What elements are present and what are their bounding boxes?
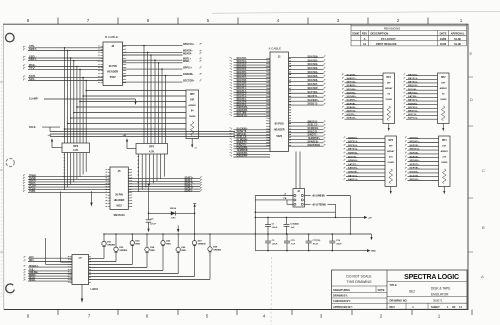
svg-text:DATE: DATE (378, 288, 385, 292)
svg-text:RP6: RP6 (73, 145, 78, 148)
title text (390, 283, 451, 297)
svg-text:SHEET: SHEET (431, 305, 440, 309)
svg-text:SDAT5-: SDAT5- (185, 189, 193, 192)
scan fold artifact (270, 257, 273, 325)
svg-text:RP2: RP2 (441, 77, 446, 79)
svg-text:5: 5 (207, 18, 210, 23)
RP4 input ticks (406, 137, 407, 180)
svg-text:DO NOT SCALE: DO NOT SCALE (346, 275, 372, 279)
svg-text:ARRAY: ARRAY (188, 104, 196, 107)
svg-text:A: A (364, 37, 366, 41)
svg-text:CLAMP-: CLAMP- (29, 98, 38, 101)
hole punch top (6, 33, 15, 42)
node CLAMP (29, 98, 136, 101)
svg-text:SCLK-: SCLK- (29, 126, 37, 129)
svg-text:SDAT4-: SDAT4- (185, 184, 193, 187)
J5 left pins (108, 170, 110, 207)
resistor network RP6 (62, 143, 90, 153)
U7 right pins (89, 257, 91, 283)
connector J1 (270, 52, 289, 152)
svg-text:.22uF: .22uF (272, 244, 278, 246)
B cable output labels (123, 43, 195, 83)
svg-text:SMSGI1-: SMSGI1- (308, 121, 319, 123)
svg-text:SDAT4+: SDAT4+ (185, 182, 194, 185)
power rail mid end (370, 234, 372, 240)
power +5V at CR1 (193, 203, 196, 234)
resistor pack RP3 (385, 136, 397, 187)
svg-text:J1: J1 (278, 54, 281, 58)
LED D52 (89, 233, 128, 261)
svg-text:SRSET1-: SRSET1- (308, 104, 319, 106)
resistor network RP7 (136, 144, 168, 155)
svg-text:050071: 050071 (433, 298, 443, 302)
resistor pack RP2 (438, 73, 450, 124)
svg-text:GREEN: GREEN (213, 250, 221, 252)
svg-text:DRAWING NO.: DRAWING NO. (390, 298, 408, 302)
svg-text:1: 1 (438, 314, 441, 319)
svg-text:B CABLE: B CABLE (105, 35, 118, 39)
sheet row (390, 303, 463, 309)
capacitor C19 (286, 217, 288, 224)
power feed to LED bus (177, 226, 179, 234)
B cable input labels (29, 45, 37, 81)
A cable output labels group 1 (289, 55, 324, 105)
svg-text:REVISIONS: REVISIONS (384, 26, 400, 30)
svg-text:CHECKED BY:: CHECKED BY: (333, 299, 351, 303)
svg-text:PC LAYOUT: PC LAYOUT (381, 37, 396, 41)
svg-text:80 POS: 80 POS (275, 122, 284, 126)
capacitor C2 (267, 234, 269, 241)
svg-text:SINOT1-: SINOT1- (308, 135, 318, 137)
svg-text:6: 6 (146, 314, 149, 319)
title block (332, 270, 468, 309)
LED D57 (89, 233, 206, 276)
svg-text:8: 8 (27, 18, 30, 23)
svg-text:SDATB6-: SDATB6- (308, 79, 319, 82)
wire bundle J3 to J5 (143, 45, 166, 144)
connector J5 (110, 167, 128, 210)
svg-text:MDATA-: MDATA- (183, 52, 192, 55)
svg-text:RP0: RP0 (190, 94, 195, 96)
svg-text:HEADER: HEADER (114, 199, 125, 202)
svg-text:3: 3 (337, 18, 340, 23)
svg-text:SLJB: SLJB (454, 42, 461, 46)
svg-text:SDATB4-: SDATB4- (308, 71, 319, 74)
capacitor C1 (267, 217, 269, 224)
svg-text:CR1: CR1 (171, 217, 176, 219)
svg-text:.56uF: .56uF (336, 244, 342, 246)
svg-text:SBSYCK+: SBSYCK+ (183, 43, 195, 46)
svg-text:SRPLY+: SRPLY+ (183, 66, 193, 69)
svg-text:6: 6 (147, 18, 150, 23)
svg-text:REV: REV (390, 305, 396, 309)
svg-text:1: 1 (460, 18, 463, 23)
svg-text:1N914: 1N914 (170, 207, 177, 210)
svg-text:REV: REV (362, 31, 368, 35)
svg-text:C77(76): C77(76) (312, 240, 320, 242)
diode CR1 (149, 207, 195, 219)
RP3 common pin (390, 187, 392, 195)
revision table (351, 24, 467, 46)
svg-text:4: 4 (263, 314, 266, 319)
ground at U7 (81, 285, 84, 303)
U7 input labels (28, 256, 72, 282)
svg-text:4.7K: 4.7K (149, 150, 154, 153)
svg-text:OHMS: OHMS (440, 99, 447, 101)
svg-text:RP1: RP1 (387, 77, 392, 79)
svg-text:.22uF: .22uF (272, 227, 278, 229)
svg-text:SATTN1-: SATTN1- (308, 91, 319, 94)
B cable input pin ticks (24, 46, 26, 80)
wires B cable inputs (28, 47, 103, 143)
svg-text:SDATB0-: SDATB0- (308, 55, 319, 58)
svg-text:SDATB5-: SDATB5- (308, 75, 319, 78)
RP3 input labels (346, 137, 385, 181)
J2 left labels (284, 193, 287, 200)
svg-text:FIRST RELEASE: FIRST RELEASE (376, 42, 397, 46)
connector J3 (103, 42, 123, 86)
ground at C3 (147, 229, 149, 233)
border zone numbers top (27, 18, 463, 23)
drawing number (390, 298, 443, 302)
svg-text:26 PIN: 26 PIN (109, 64, 117, 68)
svg-text:ZONE: ZONE (352, 31, 359, 35)
RP2 input labels (406, 74, 438, 119)
svg-text:SDAT5+: SDAT5+ (185, 187, 194, 190)
svg-text:26 PIN: 26 PIN (115, 193, 123, 196)
node SCLK (29, 126, 60, 129)
A cable output ticks group 1 (324, 56, 326, 105)
svg-text:RED: RED (181, 250, 186, 252)
svg-text:APPROVAL: APPROVAL (451, 32, 465, 35)
A cable pin number ticks (230, 58, 232, 157)
svg-text:+5V: +5V (123, 135, 127, 137)
svg-text:SPECTRA LOGIC: SPECTRA LOGIC (404, 274, 459, 281)
J1 left pins (268, 58, 270, 145)
capacitor C74 (331, 234, 333, 241)
svg-text:RED: RED (150, 250, 155, 252)
svg-text:SECTOR+: SECTOR+ (183, 79, 195, 82)
RP1 input labels (345, 74, 384, 119)
svg-text:TITLE: TITLE (390, 283, 397, 287)
svg-text:DIP: DIP (190, 100, 194, 102)
svg-text:+5V (VTERM): +5V (VTERM) (312, 204, 326, 206)
RP7 pin numbers (138, 157, 140, 187)
wire feed U7 b (61, 192, 73, 263)
svg-text:4.7uF: 4.7uF (150, 223, 156, 226)
wire bus below J3 (64, 90, 186, 130)
svg-text:SDATBP-: SDATBP- (308, 87, 319, 90)
J5 input pin ticks (24, 175, 26, 192)
LED D51 (89, 233, 116, 258)
border zone ticks top (58, 18, 428, 25)
U7 left pins (70, 257, 72, 283)
RP0 supply pin (191, 139, 198, 150)
J5 output labels (128, 176, 200, 192)
capacitor C79 (286, 234, 288, 241)
svg-text:2: 2 (380, 314, 383, 319)
svg-text:A1: A1 (363, 42, 367, 46)
svg-text:ARRAY: ARRAY (387, 150, 395, 153)
svg-text:SDAT3+: SDAT3+ (185, 176, 194, 179)
wire LED supply bus (104, 233, 372, 235)
J3 right pins (123, 46, 125, 83)
svg-text:THIS DRAWING: THIS DRAWING (347, 280, 372, 284)
RP1 common pin (388, 124, 390, 132)
svg-text:EMULATOR: EMULATOR (431, 293, 449, 297)
svg-text:SDAT3-: SDAT3- (185, 179, 193, 182)
svg-text:SLJB: SLJB (454, 37, 461, 41)
svg-text:ARRAY: ARRAY (441, 150, 449, 153)
svg-text:5022: 5022 (110, 75, 116, 79)
signature rows (333, 288, 385, 309)
svg-text:OHMS: OHMS (441, 162, 448, 164)
svg-text:SACKN1-: SACKN1- (308, 99, 319, 102)
svg-text:5: 5 (206, 314, 209, 319)
svg-text:GREEN: GREEN (119, 250, 127, 252)
svg-text:RP7: RP7 (149, 146, 154, 149)
scan paper edge top (212, 12, 500, 14)
capacitor C3 (146, 183, 157, 228)
svg-text:3: 3 (320, 314, 323, 319)
svg-text:SCMDD1-: SCMDD1- (308, 128, 320, 130)
svg-text:SE2: SE2 (409, 289, 415, 293)
node VTERM (305, 204, 337, 218)
svg-text:B: B (482, 225, 485, 230)
svg-text:.1uF: .1uF (291, 244, 296, 246)
svg-text:SIGNATURES: SIGNATURES (333, 288, 350, 292)
svg-text:SDATB1-: SDATB1- (308, 59, 319, 62)
J5 input labels (28, 175, 110, 193)
svg-text:APPROVED BY:: APPROVED BY: (333, 305, 353, 309)
svg-text:C: C (482, 168, 485, 173)
svg-text:GREEN: GREEN (198, 244, 206, 246)
svg-text:RP4: RP4 (442, 139, 447, 142)
svg-text:DESCRIPTION: DESCRIPTION (371, 31, 389, 35)
hole punch bottom (6, 284, 15, 293)
svg-text:TERMPW+: TERMPW+ (308, 138, 321, 140)
svg-text:+5V (VMEM): +5V (VMEM) (312, 196, 325, 198)
RP2 common pin (442, 124, 444, 132)
svg-text:2: 2 (397, 18, 400, 23)
ground rail (255, 249, 376, 253)
svg-text:A: A (412, 305, 414, 309)
wires RP6 to J5 bus (65, 153, 87, 191)
wire J2 to rail (255, 196, 336, 251)
svg-text:DIP: DIP (442, 146, 446, 148)
svg-text:8: 8 (27, 314, 30, 319)
svg-text:J3: J3 (111, 44, 114, 48)
svg-text:GND: GND (371, 251, 376, 253)
svg-text:DISK & TAPE: DISK & TAPE (431, 286, 450, 290)
svg-text:SBUSY1-: SBUSY1- (308, 96, 319, 98)
svg-text:OHMS: OHMS (388, 162, 395, 164)
svg-text:HEADER: HEADER (274, 128, 285, 132)
node VMEM (305, 196, 352, 235)
border zone ticks left (0, 82, 3, 252)
svg-text:DABOM+: DABOM+ (183, 73, 194, 76)
power +5V at RP6 (48, 135, 63, 148)
svg-text:SM17243: SM17243 (113, 213, 125, 217)
ground at J5 (90, 191, 92, 206)
jumper block J2 (293, 189, 305, 208)
svg-text:RP3: RP3 (389, 140, 394, 142)
svg-text:DRAWN BY:: DRAWN BY: (333, 294, 348, 298)
svg-text:E: E (470, 51, 473, 56)
svg-text:+5V: +5V (368, 217, 372, 219)
wires J1 to J2 (296, 152, 300, 189)
power rail VMEM (255, 216, 372, 220)
svg-text:5020: 5020 (276, 134, 282, 138)
wires RP7 down (139, 154, 165, 192)
svg-text:DATE: DATE (440, 31, 447, 35)
svg-text:11/86: 11/86 (440, 42, 447, 46)
J3 left pins (101, 46, 103, 83)
border zone ticks right (468, 77, 473, 252)
wire bus to A cable (50, 127, 235, 136)
svg-text:A CABLE: A CABLE (269, 46, 282, 50)
border zone numbers bottom (27, 314, 441, 319)
svg-text:L3344: L3344 (91, 287, 99, 291)
svg-text:.01uF: .01uF (312, 244, 318, 246)
svg-text:7: 7 (88, 314, 91, 319)
resistor pack RP1 (383, 73, 395, 124)
A cable output ticks group 2 (324, 121, 326, 146)
svg-text:DIP: DIP (441, 83, 445, 85)
LED D64 (89, 233, 156, 267)
svg-text:SPAREB-: SPAREB- (308, 140, 319, 143)
svg-text:SDATB7-: SDATB7- (308, 83, 319, 86)
RP2 input ticks (404, 74, 405, 119)
svg-text:4: 4 (277, 18, 280, 23)
svg-text:SSELC1-: SSELC1- (308, 125, 319, 127)
A cable output labels group 2 (289, 121, 324, 146)
resistor pack RP0 (186, 90, 199, 139)
svg-text:D: D (470, 97, 473, 102)
LED D58 (89, 233, 222, 279)
svg-text:RED: RED (136, 244, 141, 246)
J1 right pins (289, 58, 291, 145)
svg-text:4.7K: 4.7K (73, 149, 78, 152)
A cable pin labels (234, 57, 271, 157)
svg-text:ARRAY: ARRAY (440, 87, 448, 90)
B cable output pin ticks (200, 43, 202, 81)
svg-text:DIP: DIP (389, 146, 393, 148)
svg-text:SDATB2-: SDATB2- (308, 63, 319, 66)
svg-text:HEADER: HEADER (107, 70, 118, 74)
svg-text:OHMS: OHMS (189, 116, 196, 118)
svg-text:A: A (481, 274, 484, 279)
svg-text:C19(AB): C19(AB) (290, 222, 299, 225)
svg-text:.1uF: .1uF (290, 227, 295, 229)
resistor pack RP4 (439, 136, 451, 187)
LED D53 (89, 233, 141, 264)
scan paper edge left (0, 26, 2, 300)
RP3 input ticks (344, 137, 345, 180)
RP1 input ticks (343, 74, 344, 119)
svg-text:SREQT1-: SREQT1- (308, 131, 319, 133)
J5 right pins (128, 170, 130, 207)
border zone ticks bottom (58, 310, 472, 316)
logo SPECTRA LOGIC (404, 274, 459, 281)
svg-text:GREEN: GREEN (107, 244, 115, 246)
border zone letters right (470, 51, 486, 279)
svg-text:7: 7 (87, 18, 90, 23)
svg-text:5022: 5022 (116, 204, 122, 207)
note do not scale (346, 275, 372, 285)
svg-text:RED: RED (166, 244, 171, 246)
svg-text:SDATB3-: SDATB3- (308, 67, 319, 70)
LED D55 (89, 233, 172, 270)
svg-text:ARRAY: ARRAY (385, 87, 393, 90)
svg-text:+5V: +5V (48, 135, 52, 137)
svg-text:GNDSPRB: GNDSPRB (308, 145, 321, 147)
U7 input pin ticks (24, 257, 26, 281)
svg-text:MSEL-: MSEL- (183, 60, 191, 63)
RP4 input labels (408, 136, 439, 181)
svg-text:DIP: DIP (387, 83, 391, 85)
hole punch middle (6, 158, 14, 166)
power +5V at RP7 (123, 135, 137, 149)
LED D66 (89, 233, 187, 273)
IC U7 (72, 255, 89, 285)
svg-text:10/86: 10/86 (440, 37, 447, 41)
RP4 common pin (443, 187, 445, 195)
ground stub near J3 bus (134, 99, 136, 105)
J5 output pin ticks (201, 177, 203, 192)
capacitor C77 (308, 234, 310, 241)
svg-text:OF: OF (452, 305, 456, 309)
wire feed U7 a (46, 238, 73, 264)
svg-text:OHMS: OHMS (386, 99, 393, 101)
RP6 pin numbers (64, 155, 65, 179)
